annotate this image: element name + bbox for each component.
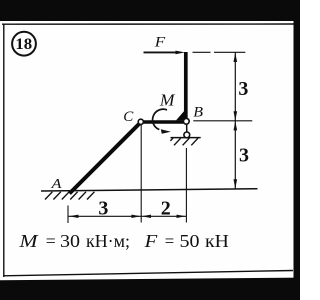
svg-text:18: 18 [15,36,32,53]
svg-text:3: 3 [238,78,248,100]
svg-text:M: M [159,91,176,110]
svg-text:3: 3 [98,198,108,220]
svg-text:3: 3 [239,145,249,167]
svg-text:2: 2 [161,198,171,220]
svg-text:M=30кН·м;F=50кН: M=30кН·м;F=50кН [18,231,229,251]
svg-text:A: A [51,176,63,191]
svg-text:B: B [193,105,203,121]
svg-text:F: F [154,34,166,50]
svg-text:C: C [123,109,134,125]
